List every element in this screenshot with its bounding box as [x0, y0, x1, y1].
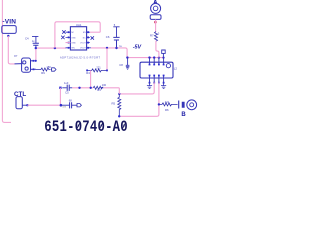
svg-text:NC: NC [83, 37, 86, 39]
svg-text:651-0740-A0: 651-0740-A0 [44, 119, 128, 133]
svg-text:R5: R5 [112, 102, 116, 106]
svg-text:VIN: VIN [71, 48, 75, 50]
svg-text:A: A [154, 0, 158, 6]
svg-text:NC: NC [71, 32, 74, 34]
svg-text:R6: R6 [165, 108, 169, 112]
svg-text:1uF: 1uF [64, 81, 69, 85]
svg-text:9?: 9? [14, 54, 18, 58]
svg-text:VOUT: VOUT [80, 43, 86, 45]
svg-text:VOUT: VOUT [80, 48, 86, 50]
svg-text:R3: R3 [97, 88, 101, 92]
svg-text:EN: EN [83, 32, 86, 34]
svg-text:B: B [181, 112, 186, 118]
svg-text:C5: C5 [65, 91, 69, 95]
svg-text:GND: GND [71, 37, 76, 39]
svg-text:-5V: -5V [133, 45, 142, 51]
svg-text:0: 0 [158, 32, 160, 36]
svg-text:GND: GND [71, 43, 76, 45]
svg-text:68: 68 [69, 98, 72, 102]
svg-text:221: 221 [96, 66, 101, 70]
svg-text:xxx: xxx [62, 105, 66, 108]
svg-text:C4: C4 [25, 37, 29, 41]
svg-text:221: 221 [165, 100, 170, 104]
svg-text:R4: R4 [86, 71, 90, 75]
svg-text:100: 100 [102, 83, 107, 87]
svg-text:-VIN: -VIN [2, 19, 16, 26]
svg-text:180: 180 [46, 65, 51, 69]
svg-text:C6: C6 [106, 35, 110, 39]
svg-text:R9: R9 [41, 71, 45, 75]
svg-text:1u: 1u [32, 40, 35, 43]
svg-text:5: 5 [114, 23, 116, 27]
svg-text:C8: C8 [119, 63, 123, 67]
svg-text:ADP7182AUJZ-5.0-R7GRT: ADP7182AUJZ-5.0-R7GRT [60, 57, 100, 60]
svg-text:L2: L2 [174, 67, 178, 71]
svg-text:R7: R7 [150, 33, 154, 37]
